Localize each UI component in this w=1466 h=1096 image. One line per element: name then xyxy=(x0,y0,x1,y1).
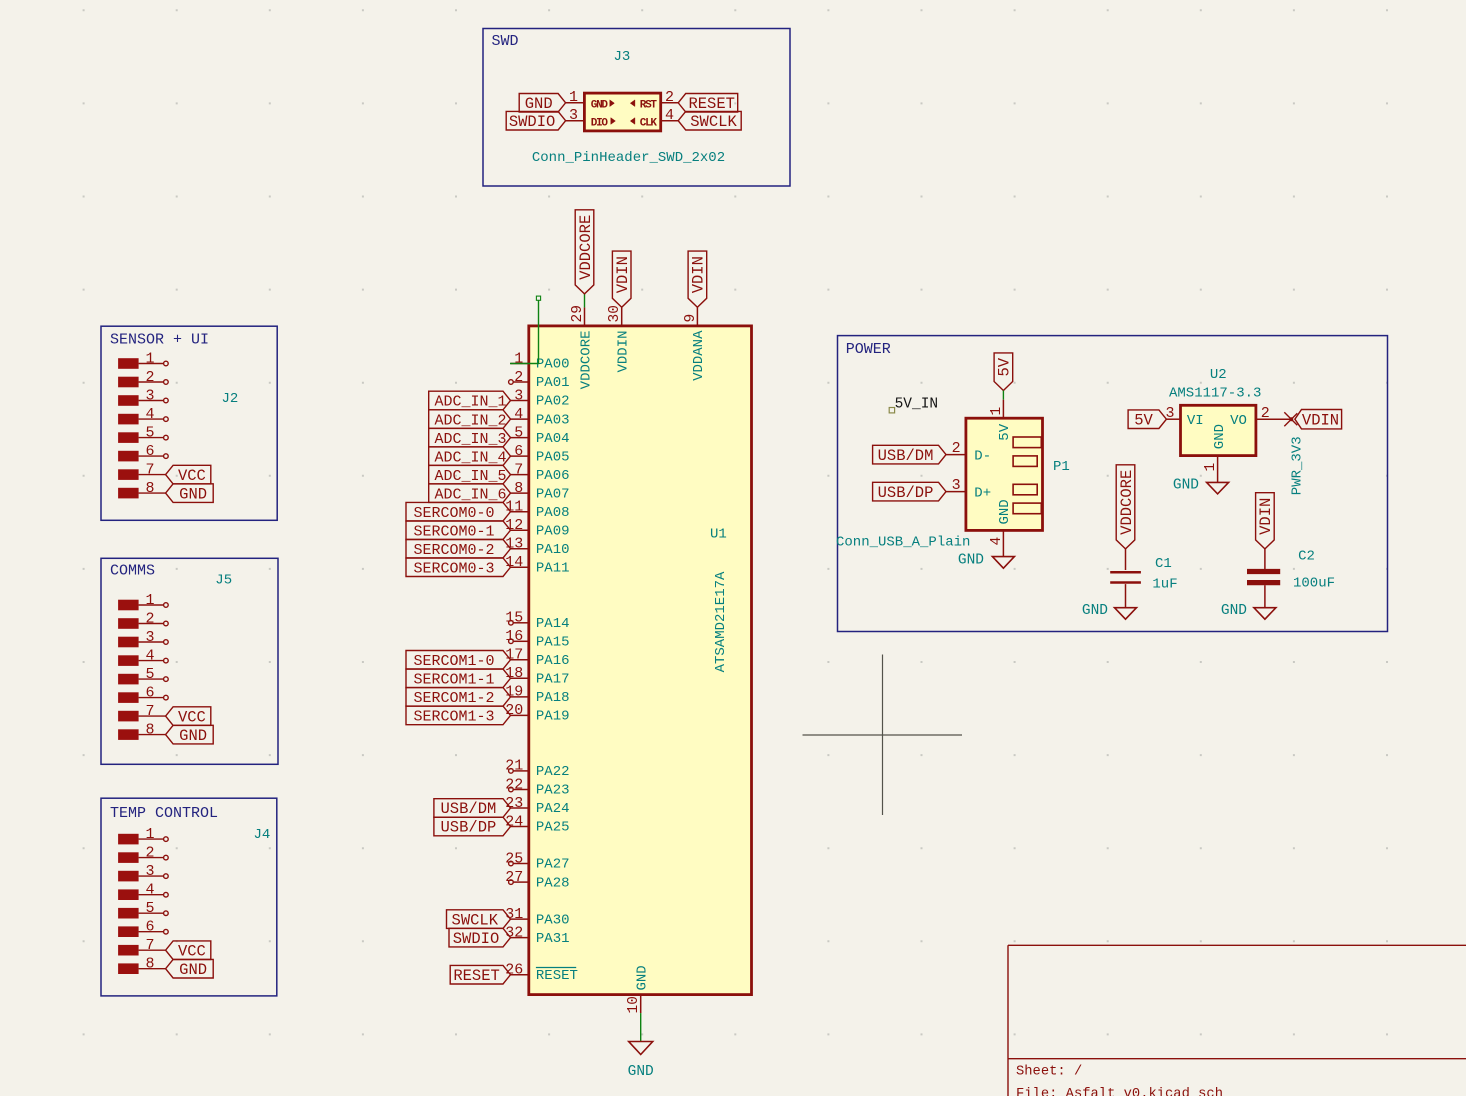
svg-text:ADC_IN_2: ADC_IN_2 xyxy=(435,412,507,429)
J5 pin 3 open end xyxy=(164,640,169,645)
J2 pin 4 line xyxy=(139,418,164,420)
J2 pin 1 line xyxy=(139,363,164,365)
svg-text:POWER: POWER xyxy=(846,341,891,358)
svg-text:SWCLK: SWCLK xyxy=(452,911,499,929)
wire end cross at VDIN xyxy=(1284,412,1297,425)
J5 pin 2 open end xyxy=(164,621,169,626)
U1 pin 16 (PA15) line xyxy=(513,640,529,642)
svg-text:3: 3 xyxy=(145,629,154,646)
capacitor C1 bottom plate xyxy=(1110,581,1141,584)
svg-text:AMS1117-3.3: AMS1117-3.3 xyxy=(1169,386,1261,402)
J2 pin 8 pad xyxy=(118,488,139,499)
svg-text:3: 3 xyxy=(145,388,154,405)
U1 pin 1 (PA00) line xyxy=(511,363,529,365)
J2 pin 2 pad xyxy=(118,377,139,388)
connector J3 pin CLK arrow xyxy=(630,118,635,125)
svg-text:PA30: PA30 xyxy=(536,912,570,928)
J4 pin 3 pad xyxy=(118,871,139,882)
U1 pin 7 (PA06) line xyxy=(511,474,529,476)
svg-text:USB/DP: USB/DP xyxy=(878,484,934,502)
hierarchical label RESET xyxy=(678,94,738,113)
U1 pin 17 (PA16) line xyxy=(511,659,529,661)
connector J3 pin DIO arrow xyxy=(611,118,616,125)
hierarchical label SWCLK xyxy=(447,910,511,929)
hierarchical label USB/DP xyxy=(434,817,511,836)
svg-text:PA31: PA31 xyxy=(536,931,570,947)
J2 pin 1 open end xyxy=(164,361,169,366)
svg-text:4: 4 xyxy=(665,107,674,124)
svg-text:COMMS: COMMS xyxy=(110,563,155,580)
J5 pin 4 open end xyxy=(164,658,169,663)
hierarchical label RESET xyxy=(450,965,510,984)
hierarchical label SWCLK xyxy=(678,111,741,130)
MCU U1 body xyxy=(529,326,752,995)
svg-text:ADC_IN_5: ADC_IN_5 xyxy=(435,468,507,485)
svg-text:VCC: VCC xyxy=(178,942,206,960)
svg-text:6: 6 xyxy=(145,919,154,936)
svg-text:U1: U1 xyxy=(710,527,727,543)
svg-text:VDDCORE: VDDCORE xyxy=(577,215,595,280)
svg-text:C2: C2 xyxy=(1298,549,1315,565)
U1 pin 10 (GND) line xyxy=(640,995,642,1014)
svg-text:19: 19 xyxy=(505,684,523,701)
svg-text:PA22: PA22 xyxy=(536,764,570,780)
svg-text:4: 4 xyxy=(145,648,154,665)
U1 pin 29 (VDDCORE) line xyxy=(584,307,586,326)
svg-text:VDIN: VDIN xyxy=(1302,411,1339,429)
svg-text:SWDIO: SWDIO xyxy=(453,930,500,948)
J5 pin 5 open end xyxy=(164,677,169,682)
J3 pin 4 line xyxy=(661,120,679,122)
wire U1 GND to ground xyxy=(640,1013,642,1041)
svg-text:14: 14 xyxy=(505,554,523,571)
P1 pin 4 line xyxy=(1002,530,1004,556)
svg-text:2: 2 xyxy=(145,611,154,628)
svg-text:5V_IN: 5V_IN xyxy=(895,397,939,413)
svg-text:VDIN: VDIN xyxy=(614,256,632,293)
note box COMMS xyxy=(101,558,278,764)
J5 pin 6 open end xyxy=(164,695,169,700)
cursor crosshair xyxy=(803,734,963,736)
svg-text:12: 12 xyxy=(505,517,523,534)
svg-text:4: 4 xyxy=(514,406,523,423)
J4 pin 1 line xyxy=(139,838,164,840)
J2 pin 4 pad xyxy=(118,414,139,425)
svg-text:GND: GND xyxy=(628,1064,654,1080)
svg-text:PA02: PA02 xyxy=(536,394,570,410)
capacitor C2 top plate xyxy=(1247,569,1280,574)
hierarchical label VDDCORE xyxy=(575,210,594,294)
J5 hierarchical label GND xyxy=(166,725,214,744)
J4 pin 4 open end xyxy=(164,892,169,897)
svg-text:2: 2 xyxy=(514,369,523,386)
J4 pin 2 line xyxy=(139,857,164,859)
svg-text:GND: GND xyxy=(1173,478,1199,494)
connector J3 pin GND arrow xyxy=(610,100,615,107)
J5 pin 3 line xyxy=(139,641,164,643)
J2 pin 6 line xyxy=(139,455,164,457)
regulator U2 body xyxy=(1181,405,1256,455)
P1 USB contact bar 1 xyxy=(1013,437,1041,448)
svg-text:PWR_3V3: PWR_3V3 xyxy=(1289,436,1305,495)
svg-text:2: 2 xyxy=(952,440,961,457)
J5 pin 8 line xyxy=(139,734,166,736)
U1 pin 4 (PA03) line xyxy=(511,418,529,420)
U1 pin 5 (PA04) line xyxy=(511,437,529,439)
J2 pin 5 open end xyxy=(164,435,169,440)
J4 pin 6 line xyxy=(139,931,164,933)
P1 pin 2 line xyxy=(946,454,966,456)
P1 pin 1 line xyxy=(1002,400,1004,419)
hierarchical label USB/DM xyxy=(434,799,511,818)
J5 pin 7 line xyxy=(139,715,166,717)
svg-text:PA23: PA23 xyxy=(536,783,570,799)
U1 pin 3 (PA02) line xyxy=(511,400,529,402)
svg-text:J3: J3 xyxy=(614,49,631,65)
svg-text:RST: RST xyxy=(640,100,658,112)
U1 pin 8 (PA07) line xyxy=(511,492,529,494)
U1 pin 2 open end xyxy=(509,380,514,385)
hierarchical label SERCOM1-2 xyxy=(406,688,511,707)
wire pin29 to VDDCORE label xyxy=(584,294,586,308)
svg-text:7: 7 xyxy=(145,462,154,479)
J2 pin 2 open end xyxy=(164,380,169,385)
svg-text:GND: GND xyxy=(997,499,1013,524)
svg-text:Conn_PinHeader_SWD_2x02: Conn_PinHeader_SWD_2x02 xyxy=(532,150,725,166)
U1 pin 13 (PA10) line xyxy=(511,548,529,550)
svg-text:PA04: PA04 xyxy=(536,431,570,447)
U1 pin 26 (RESET) line xyxy=(511,974,529,976)
svg-text:VO: VO xyxy=(1230,413,1247,429)
U1 pin 15 open end xyxy=(509,621,514,626)
svg-text:ADC_IN_1: ADC_IN_1 xyxy=(435,394,507,411)
U2 pin 1 line xyxy=(1217,456,1219,483)
svg-text:PA14: PA14 xyxy=(536,616,570,632)
svg-text:5V: 5V xyxy=(997,423,1013,440)
unconnected wire end square xyxy=(536,296,540,300)
hierarchical label USB/DM xyxy=(873,445,946,464)
J2 pin 1 pad xyxy=(118,358,139,369)
U1 pin 15 (PA14) line xyxy=(513,622,529,624)
svg-text:5V: 5V xyxy=(1134,411,1153,429)
svg-text:VI: VI xyxy=(1187,413,1204,429)
svg-text:USB/DM: USB/DM xyxy=(878,447,934,465)
svg-text:29: 29 xyxy=(570,305,586,322)
ground symbol below C2 xyxy=(1254,608,1276,620)
svg-text:13: 13 xyxy=(505,536,523,553)
svg-text:7: 7 xyxy=(514,461,523,478)
svg-text:SERCOM0-1: SERCOM0-1 xyxy=(414,523,495,540)
svg-text:P1: P1 xyxy=(1053,459,1070,475)
svg-text:1: 1 xyxy=(989,407,1005,416)
J5 pin 6 pad xyxy=(118,692,139,703)
U1 pin 11 (PA08) line xyxy=(511,511,529,513)
hierarchical label ADC_IN_3 xyxy=(429,428,511,447)
hierarchical label SERCOM0-1 xyxy=(406,521,511,540)
J2 pin 7 line xyxy=(139,474,166,476)
svg-text:PA11: PA11 xyxy=(536,560,570,576)
svg-text:GND: GND xyxy=(179,727,207,745)
power label VDDCORE (above C1) xyxy=(1116,465,1135,549)
wire 5V to P1 pin 1 xyxy=(1002,391,1004,400)
J3 pin 1 line xyxy=(566,102,585,104)
svg-text:8: 8 xyxy=(145,956,154,973)
connector J3 pin RST arrow xyxy=(630,100,635,107)
svg-text:5: 5 xyxy=(145,425,154,442)
svg-text:24: 24 xyxy=(505,813,523,830)
svg-text:5: 5 xyxy=(145,900,154,917)
J2 pin 2 line xyxy=(139,381,164,383)
svg-text:ATSAMD21E17A: ATSAMD21E17A xyxy=(713,571,729,672)
J5 pin 2 line xyxy=(139,623,164,625)
P1 USB contact bar 3 xyxy=(1013,484,1037,495)
C1 lower line xyxy=(1125,584,1127,608)
svg-text:C1: C1 xyxy=(1155,556,1172,572)
svg-text:File: Asfalt_v0.kicad_sch: File: Asfalt_v0.kicad_sch xyxy=(1016,1086,1223,1096)
U1 pin 22 open end xyxy=(509,787,514,792)
svg-text:SERCOM1-1: SERCOM1-1 xyxy=(414,672,495,689)
P1 USB contact bar 2 xyxy=(1013,456,1037,467)
J2 hierarchical label GND xyxy=(166,484,214,503)
ground symbol below U1 xyxy=(629,1042,653,1055)
hierarchical label SERCOM0-2 xyxy=(406,539,511,558)
svg-text:GND: GND xyxy=(1221,603,1247,619)
svg-text:ADC_IN_6: ADC_IN_6 xyxy=(435,486,507,503)
J2 pin 3 line xyxy=(139,400,164,402)
J5 pin 3 pad xyxy=(118,637,139,648)
J2 pin 3 pad xyxy=(118,395,139,406)
svg-text:GND: GND xyxy=(525,95,553,113)
svg-text:DIO: DIO xyxy=(591,117,609,129)
hierarchical label ADC_IN_6 xyxy=(429,484,511,503)
U1 pin 14 (PA11) line xyxy=(511,566,529,568)
svg-text:15: 15 xyxy=(505,610,523,627)
capacitor C1 top plate xyxy=(1110,571,1141,574)
svg-text:SERCOM1-3: SERCOM1-3 xyxy=(414,709,495,726)
wire VDDCORE to C1 xyxy=(1125,549,1127,570)
svg-text:3: 3 xyxy=(952,477,961,494)
hierarchical label VDIN (pin30) xyxy=(612,251,631,307)
U1 pin 23 (PA24) line xyxy=(511,807,529,809)
capacitor C2 bottom plate xyxy=(1247,580,1280,585)
svg-text:GND: GND xyxy=(1082,603,1108,619)
U1 pin 19 (PA18) line xyxy=(511,696,529,698)
svg-text:GND: GND xyxy=(179,485,207,503)
J4 pin 5 open end xyxy=(164,911,169,916)
J2 pin 8 line xyxy=(139,492,166,494)
svg-text:VDDCORE: VDDCORE xyxy=(578,331,594,390)
svg-text:U2: U2 xyxy=(1210,367,1227,383)
hierarchical label USB/DP xyxy=(873,482,946,501)
title block frame xyxy=(1008,944,1466,946)
hierarchical label SERCOM0-3 xyxy=(406,558,511,577)
svg-text:J4: J4 xyxy=(254,827,271,843)
svg-text:5V: 5V xyxy=(996,357,1014,376)
svg-text:PA25: PA25 xyxy=(536,820,570,836)
svg-text:VDDCORE: VDDCORE xyxy=(1118,470,1136,535)
svg-text:VCC: VCC xyxy=(178,708,206,726)
svg-text:17: 17 xyxy=(505,647,523,664)
J4 pin 7 line xyxy=(139,949,166,951)
svg-text:31: 31 xyxy=(505,906,523,923)
svg-text:PA09: PA09 xyxy=(536,523,570,539)
svg-text:3: 3 xyxy=(569,107,578,124)
hierarchical label SERCOM1-3 xyxy=(406,706,511,725)
svg-text:SERCOM0-2: SERCOM0-2 xyxy=(414,542,495,559)
wire VDIN to C2 xyxy=(1264,549,1266,569)
svg-text:PA19: PA19 xyxy=(536,709,570,725)
U1 pin 31 (PA30) line xyxy=(511,918,529,920)
svg-text:25: 25 xyxy=(505,850,523,867)
U1 pin 24 (PA25) line xyxy=(511,826,529,828)
J4 pin 7 pad xyxy=(118,945,139,956)
svg-text:10: 10 xyxy=(626,996,642,1013)
svg-text:PA01: PA01 xyxy=(536,375,570,391)
svg-text:PA08: PA08 xyxy=(536,505,570,521)
hierarchical label 5V_IN square xyxy=(889,408,894,413)
J5 hierarchical label VCC xyxy=(166,707,211,726)
svg-text:2: 2 xyxy=(665,89,674,106)
J3 pin 3 line xyxy=(566,120,585,122)
svg-text:3: 3 xyxy=(514,387,523,404)
U2 pin 2 line xyxy=(1256,418,1292,420)
J4 pin 8 line xyxy=(139,968,166,970)
note box SWD xyxy=(483,29,790,187)
svg-text:1: 1 xyxy=(145,826,154,843)
U1 pin 30 (VDDIN) line xyxy=(621,307,623,326)
J4 pin 1 open end xyxy=(164,837,169,842)
P1 pin 3 line xyxy=(946,491,966,493)
ground symbol below C1 xyxy=(1115,608,1137,620)
J4 pin 3 open end xyxy=(164,874,169,879)
U1 pin 9 (VDDANA) line xyxy=(696,307,698,326)
svg-text:SERCOM1-2: SERCOM1-2 xyxy=(414,690,495,707)
P1 USB contact bar 4 xyxy=(1013,503,1041,514)
svg-text:3: 3 xyxy=(145,863,154,880)
svg-text:PA03: PA03 xyxy=(536,412,570,428)
hierarchical label VDIN (pin9) xyxy=(688,251,707,307)
svg-text:GND: GND xyxy=(1212,424,1228,449)
svg-text:VCC: VCC xyxy=(178,467,206,485)
svg-text:PA17: PA17 xyxy=(536,672,570,688)
J4 pin 2 open end xyxy=(164,855,169,860)
svg-text:ADC_IN_4: ADC_IN_4 xyxy=(435,449,507,466)
J5 pin 1 line xyxy=(139,604,164,606)
J5 pin 2 pad xyxy=(118,618,139,629)
U1 pin 27 open end xyxy=(509,880,514,885)
svg-text:32: 32 xyxy=(505,924,523,941)
svg-text:1: 1 xyxy=(569,89,578,106)
svg-text:TEMP CONTROL: TEMP CONTROL xyxy=(110,805,218,822)
svg-text:VDIN: VDIN xyxy=(690,256,708,293)
J4 pin 5 pad xyxy=(118,908,139,919)
svg-text:21: 21 xyxy=(505,758,523,775)
svg-text:GND: GND xyxy=(179,961,207,979)
svg-text:D+: D+ xyxy=(974,485,991,501)
J2 pin 6 pad xyxy=(118,451,139,462)
svg-text:SERCOM1-0: SERCOM1-0 xyxy=(414,653,495,670)
svg-text:GND: GND xyxy=(958,553,984,569)
svg-text:4: 4 xyxy=(145,882,154,899)
U1 pin 2 (PA01) line xyxy=(513,381,529,383)
J5 pin 7 pad xyxy=(118,711,139,722)
svg-text:100uF: 100uF xyxy=(1293,576,1335,592)
svg-text:SERCOM0-0: SERCOM0-0 xyxy=(414,505,495,522)
J4 hierarchical label GND xyxy=(166,959,214,978)
svg-text:5: 5 xyxy=(145,666,154,683)
svg-text:18: 18 xyxy=(505,665,523,682)
power label 5V (U2 input) xyxy=(1128,410,1166,429)
J5 pin 5 line xyxy=(139,678,164,680)
svg-text:J2: J2 xyxy=(222,391,239,407)
J2 hierarchical label VCC xyxy=(166,465,211,484)
hierarchical label ADC_IN_2 xyxy=(429,410,511,429)
svg-text:6: 6 xyxy=(145,443,154,460)
hierarchical label SERCOM0-0 xyxy=(406,502,511,521)
svg-text:1: 1 xyxy=(514,350,523,367)
U1 pin 6 (PA05) line xyxy=(511,455,529,457)
svg-text:6: 6 xyxy=(514,443,523,460)
U1 pin 12 (PA09) line xyxy=(511,529,529,531)
J4 pin 4 pad xyxy=(118,889,139,900)
hierarchical label ADC_IN_1 xyxy=(429,391,511,410)
U1 pin 22 (PA23) line xyxy=(513,789,529,791)
svg-text:Conn_USB_A_Plain: Conn_USB_A_Plain xyxy=(836,535,970,551)
J4 hierarchical label VCC xyxy=(166,941,211,960)
svg-text:SWD: SWD xyxy=(492,33,519,50)
U1 pin 21 open end xyxy=(509,769,514,774)
svg-text:VDIN: VDIN xyxy=(1257,498,1275,535)
J4 pin 5 line xyxy=(139,912,164,914)
svg-text:VDDANA: VDDANA xyxy=(691,330,707,381)
svg-text:D-: D- xyxy=(974,449,991,465)
hierarchical label SERCOM1-0 xyxy=(406,651,511,670)
U1 pin 32 (PA31) line xyxy=(511,937,529,939)
hierarchical label ADC_IN_4 xyxy=(429,447,511,466)
svg-text:SERCOM0-3: SERCOM0-3 xyxy=(414,560,495,577)
svg-text:SWCLK: SWCLK xyxy=(690,113,737,131)
note box POWER xyxy=(838,336,1388,632)
J4 pin 6 pad xyxy=(118,926,139,937)
svg-text:5: 5 xyxy=(514,424,523,441)
svg-text:PA07: PA07 xyxy=(536,486,570,502)
ground symbol below P1 xyxy=(992,557,1014,569)
U1 pin 25 open end xyxy=(509,861,514,866)
svg-text:GND: GND xyxy=(635,965,651,990)
J2 pin 3 open end xyxy=(164,398,169,403)
J2 pin 6 open end xyxy=(164,454,169,459)
svg-text:PA16: PA16 xyxy=(536,653,570,669)
note box TEMP CONTROL xyxy=(101,798,277,996)
J4 pin 4 line xyxy=(139,894,164,896)
svg-text:1uF: 1uF xyxy=(1152,577,1177,593)
svg-text:PA15: PA15 xyxy=(536,635,570,651)
svg-text:PA18: PA18 xyxy=(536,690,570,706)
hierarchical label SWDIO xyxy=(449,928,511,947)
svg-text:30: 30 xyxy=(607,305,623,322)
power label VDIN (above C2) xyxy=(1256,493,1275,549)
svg-text:RESET: RESET xyxy=(688,95,735,113)
svg-text:8: 8 xyxy=(145,480,154,497)
svg-text:PA24: PA24 xyxy=(536,801,570,817)
J5 pin 4 line xyxy=(139,660,164,662)
svg-text:CLK: CLK xyxy=(640,117,658,129)
power label 5V (above P1) xyxy=(994,353,1013,391)
svg-text:RESET: RESET xyxy=(453,967,500,985)
svg-text:USB/DM: USB/DM xyxy=(440,800,496,818)
J4 pin 2 pad xyxy=(118,852,139,863)
J5 pin 6 line xyxy=(139,697,164,699)
